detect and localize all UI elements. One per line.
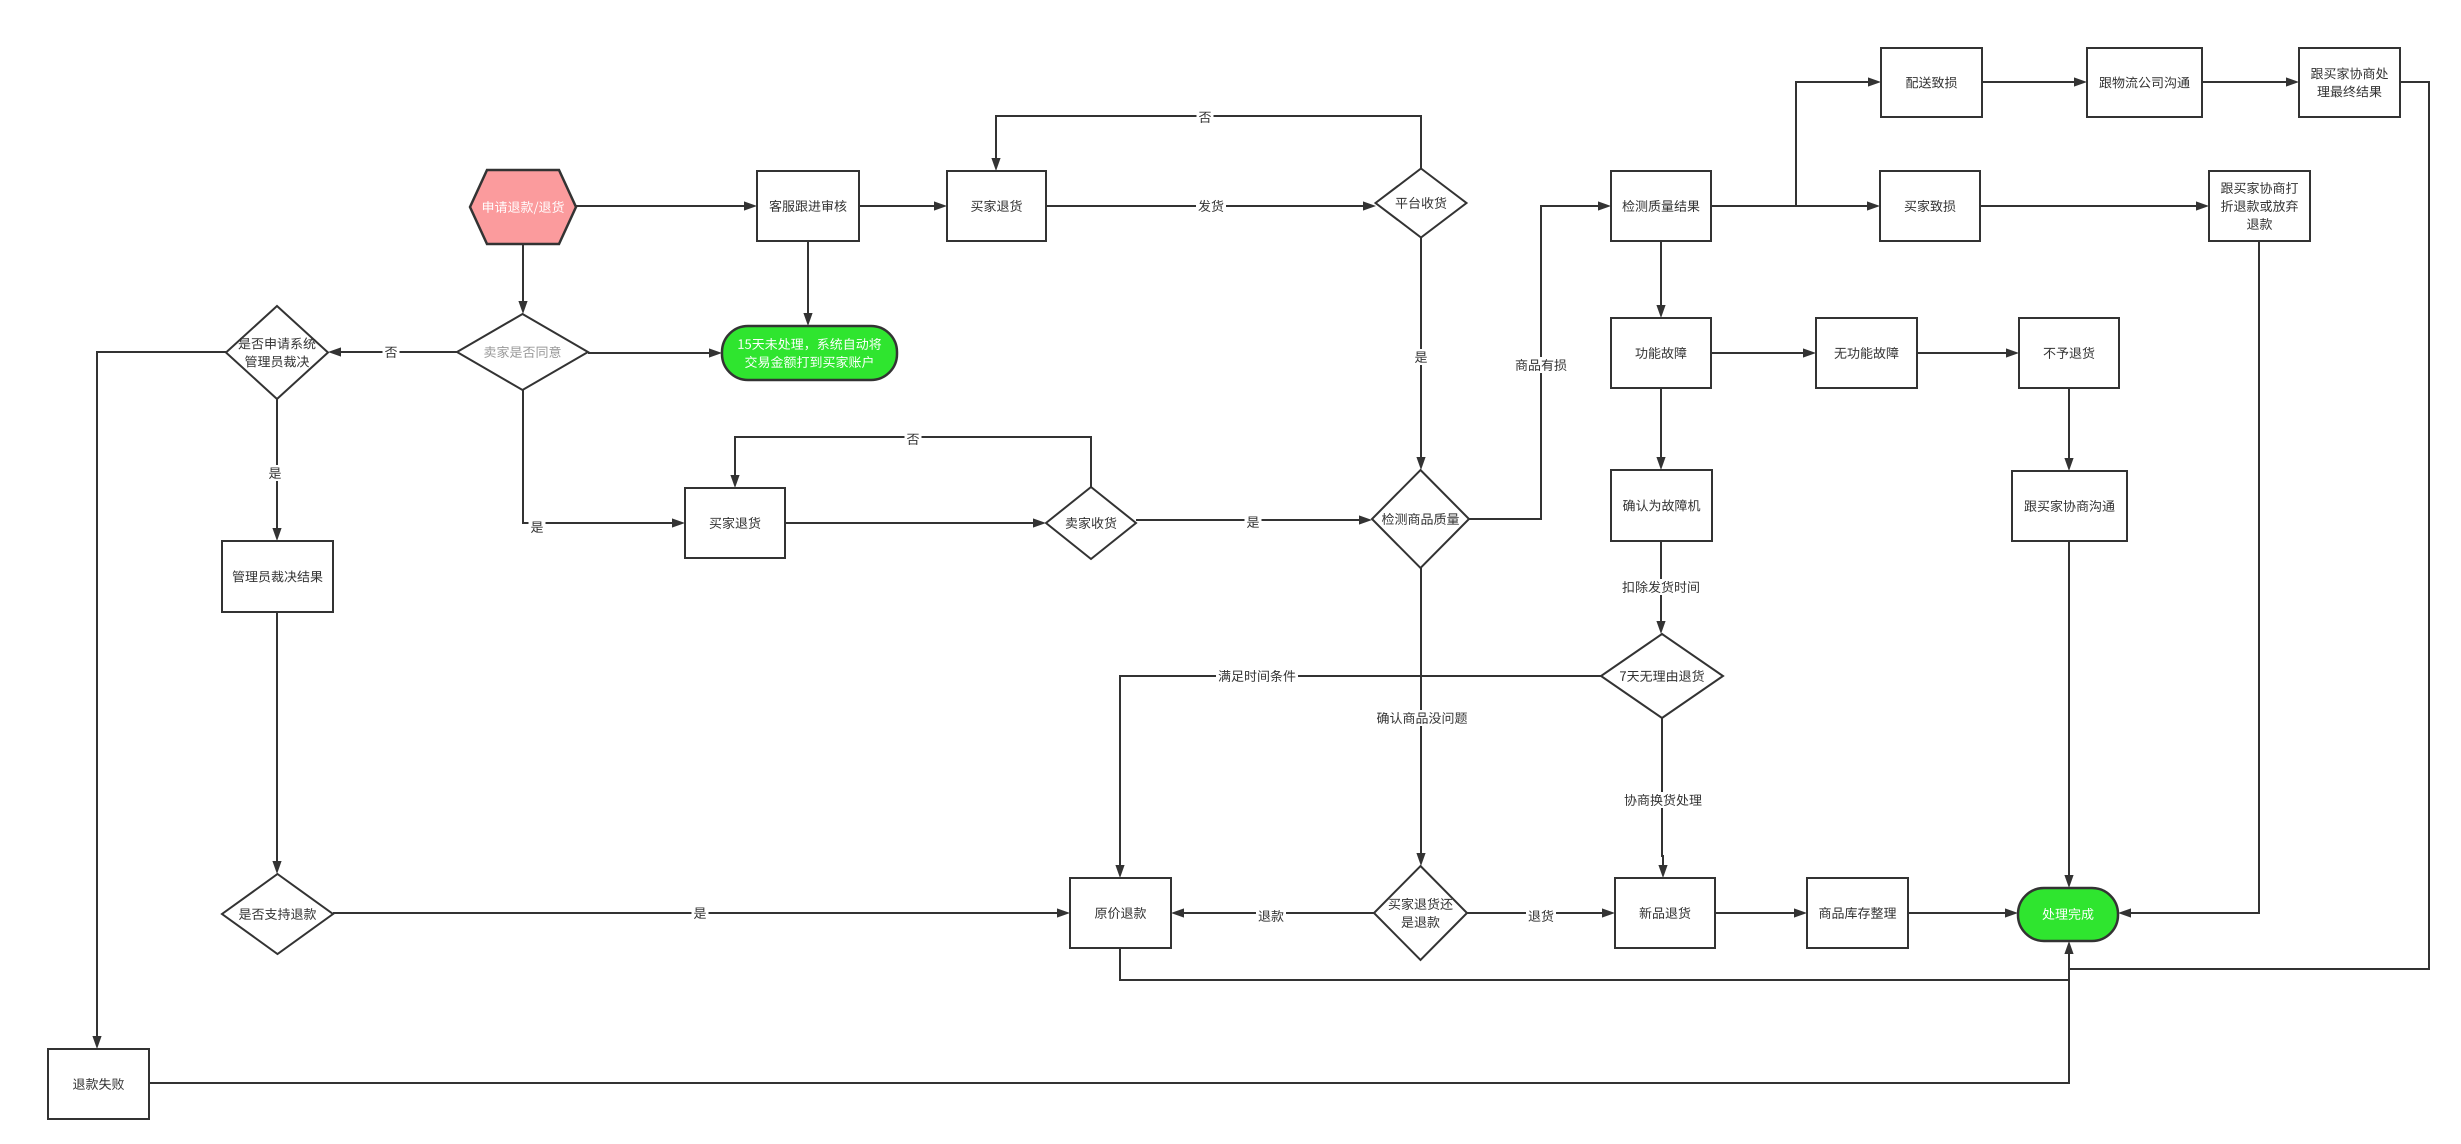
- wire 配送致损 to 跟物流公司沟通: [1982, 77, 2087, 86]
- wire 申请退款/退货 to 客服跟进审核: [576, 201, 757, 210]
- wire 是否申请系统管理员裁决 是 to 管理员裁决结果: [272, 399, 281, 541]
- wire 跟买家协商处理最终结果 to 处理完成: [2069, 82, 2429, 969]
- label 否 (卖家是否同意): [383, 344, 400, 360]
- wire 管理员裁决结果 to 是否支持退款: [272, 612, 281, 874]
- wire 卖家是否同意 是 to 买家退货2: [523, 390, 685, 528]
- process 不予退货: [2019, 318, 2119, 388]
- wire 检测质量结果 to 功能故障: [1656, 241, 1665, 318]
- terminal 处理完成: [2018, 888, 2118, 941]
- wire 卖家是否同意 to 15天未处理: [588, 348, 722, 357]
- decision 买家退货还是退款: [1374, 866, 1467, 960]
- wire 买家退货还是退款 退货 to 新品退货: [1467, 908, 1615, 917]
- decision 是否支持退款: [222, 874, 333, 954]
- wire 客服跟进审核 to 买家退货: [859, 201, 947, 210]
- label 退款: [1256, 908, 1286, 924]
- label 确认商品没问题: [1375, 710, 1470, 726]
- process 原价退款: [1070, 878, 1171, 948]
- wire 卖家是否同意 否 to 是否申请系统管理员裁决: [328, 347, 457, 356]
- wire 功能故障 to 无功能故障: [1711, 348, 1816, 357]
- label 扣除发货时间: [1620, 579, 1702, 595]
- process 商品库存整理: [1807, 878, 1908, 948]
- process 退款失败: [48, 1049, 149, 1119]
- wire 是否申请系统管理员裁决 to 退款失败: [92, 352, 226, 1049]
- process 跟买家协商打折退款或放弃退款: [2209, 171, 2310, 241]
- process 买家退货 (second): [685, 488, 785, 558]
- process 买家致损: [1880, 171, 1980, 241]
- process 功能故障: [1611, 318, 1711, 388]
- wire 原价退款 loop to 处理完成: [1120, 948, 2069, 980]
- process 跟买家协商处理最终结果: [2299, 48, 2400, 117]
- wire 检测商品质量 确认商品没问题 to 买家退货还是退款: [1416, 568, 1425, 866]
- wire 确认为故障机 to 7天无理由退货 (扣除发货时间): [1656, 541, 1665, 634]
- wire 平台收货 否 loop to 买家退货: [991, 116, 1421, 171]
- process 买家退货 (top): [947, 171, 1046, 241]
- terminal 15天未处理 系统自动将交易金额打到买家账户: [722, 326, 897, 380]
- wire 买家致损 to 跟买家协商打折退款或放弃退款: [1980, 201, 2209, 210]
- decision 是否申请系统管理员裁决: [226, 306, 328, 399]
- wire 是否支持退款 是 to 原价退款: [333, 908, 1070, 917]
- decision 平台收货: [1376, 169, 1467, 238]
- wire 不予退货 to 跟买家协商沟通: [2064, 388, 2073, 471]
- wire 客服跟进审核 to 15天未处理: [803, 241, 812, 326]
- process 检测质量结果: [1611, 171, 1711, 241]
- wire 7天无理由退货 协商换货处理 to 新品退货: [1658, 718, 1667, 878]
- wire 退款失败 to 处理完成: [149, 941, 2074, 1083]
- label 否 (平台收货 loop): [1197, 109, 1214, 125]
- wire 无功能故障 to 不予退货: [1917, 348, 2019, 357]
- label 发货: [1196, 198, 1226, 214]
- wire 跟买家协商打折退款或放弃退款 to 处理完成: [2118, 241, 2259, 918]
- label 是 (是否申请系统管理员裁决): [267, 465, 284, 481]
- decision 卖家收货: [1046, 487, 1136, 559]
- process 确认为故障机: [1611, 470, 1712, 541]
- process 跟买家协商沟通: [2012, 471, 2127, 541]
- wire 买家退货 to 平台收货 (发货): [1046, 201, 1376, 210]
- process 新品退货: [1615, 878, 1715, 948]
- wire 平台收货 是 to 检测商品质量: [1416, 238, 1425, 470]
- wire 卖家收货 是 to 检测商品质量: [1136, 515, 1372, 524]
- wire 商品库存整理 to 处理完成: [1908, 908, 2018, 917]
- wire 检测商品质量 商品有损 to 检测质量结果: [1469, 201, 1611, 519]
- process 无功能故障: [1816, 318, 1917, 388]
- wire 跟物流公司沟通 to 跟买家协商处理最终结果: [2202, 77, 2299, 86]
- process 跟物流公司沟通: [2087, 48, 2202, 117]
- decision 7天无理由退货: [1601, 634, 1723, 718]
- wire 买家退货还是退款 退款 to 原价退款: [1171, 908, 1374, 917]
- wire 买家退货2 to 卖家收货: [785, 518, 1046, 527]
- label 否 (卖家收货 loop): [905, 431, 922, 447]
- process 客服跟进审核: [757, 171, 859, 241]
- label 商品有损: [1513, 357, 1569, 373]
- label 是 (平台收货): [1413, 349, 1430, 365]
- process 配送致损: [1881, 48, 1982, 117]
- process 管理员裁决结果: [222, 541, 333, 612]
- label 满足时间条件: [1216, 668, 1298, 684]
- wire 功能故障 to 确认为故障机: [1656, 388, 1665, 470]
- label 是 (是否支持退款): [692, 905, 709, 921]
- decision 检测商品质量: [1372, 470, 1469, 568]
- decision 卖家是否同意: [457, 314, 588, 390]
- wire 跟买家协商沟通 to 处理完成: [2064, 541, 2073, 888]
- label 退货: [1526, 908, 1556, 924]
- wire 卖家收货 否 loop to 买家退货2: [730, 437, 1091, 488]
- wire 申请退款/退货 to 卖家是否同意: [518, 244, 527, 314]
- label 是 (卖家是否同意): [529, 519, 546, 535]
- wire 新品退货 to 商品库存整理: [1715, 908, 1807, 917]
- start hexagon 申请退款/退货: [470, 170, 576, 244]
- label 是 (卖家收货): [1245, 514, 1262, 530]
- wire junction to 配送致损: [1796, 77, 1881, 206]
- wire 7天无理由退货 满足时间条件 to 原价退款: [1115, 676, 1601, 878]
- label 协商换货处理: [1622, 792, 1704, 808]
- wire 检测质量结果 to 买家致损: [1711, 201, 1880, 210]
